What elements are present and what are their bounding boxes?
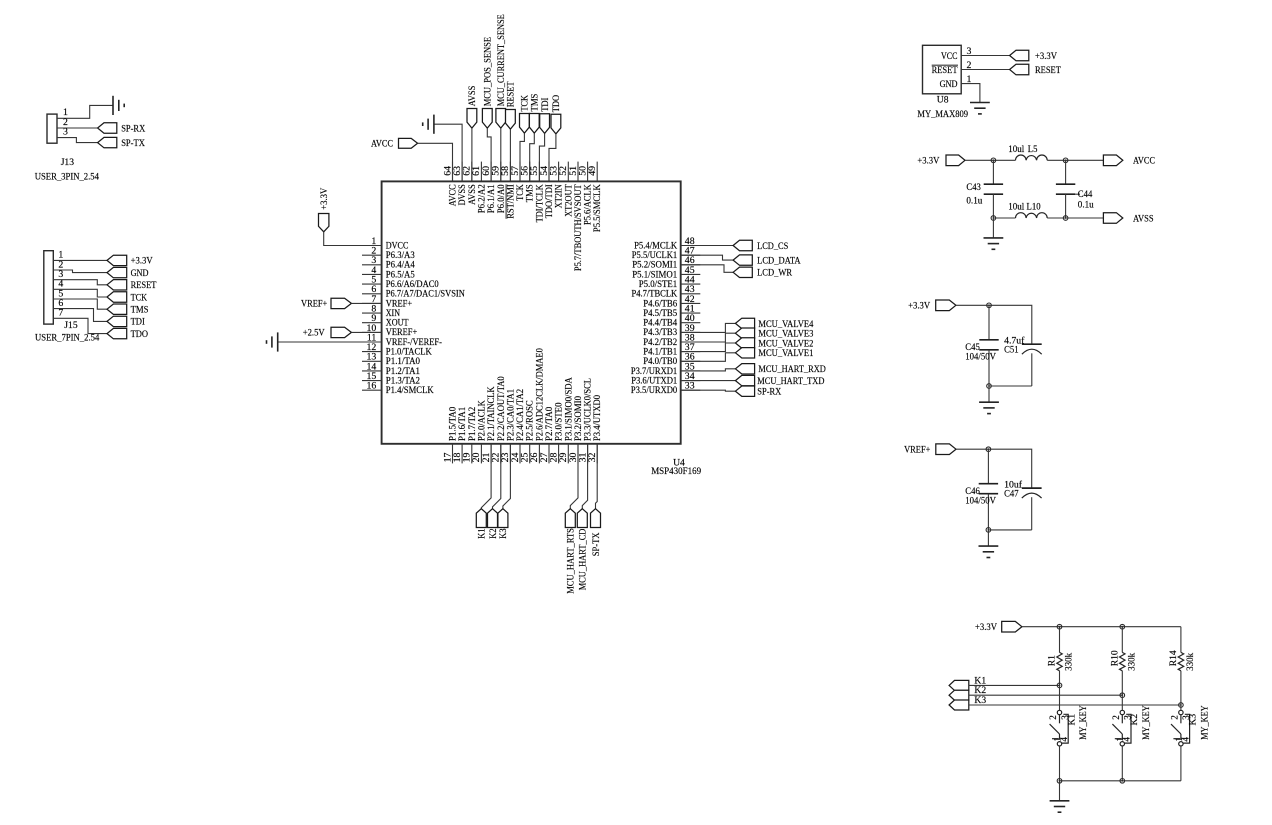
svg-text:R10: R10 [1109, 650, 1120, 666]
resistor R14 330k [1168, 627, 1196, 705]
U4 pin 22 P2.2/CAOUT/TA0 [491, 376, 506, 463]
svg-text:104/50V: 104/50V [965, 352, 996, 363]
power port VREF+ [904, 444, 956, 456]
port SP-TX (U4 pin 32) [591, 444, 602, 556]
svg-text:P1.3/TA2: P1.3/TA2 [386, 376, 421, 386]
J15 pin 1 wire [53, 250, 107, 261]
U8 pin 3 VCC [941, 46, 1010, 61]
wire U4 VREF-/VEREF- to ground [278, 341, 382, 343]
svg-text:K1: K1 [477, 528, 488, 538]
port MCU_HART_CD (U4 pin 31) [577, 444, 588, 591]
svg-text:P4.2/TB2: P4.2/TB2 [643, 337, 677, 347]
J15 reference designator [64, 320, 78, 331]
svg-text:32: 32 [587, 453, 598, 463]
svg-text:MY_MAX809: MY_MAX809 [917, 109, 968, 120]
U4 pin 31 P3.3/UCLK0/SCL [577, 378, 592, 464]
switch K3 MY_KEY [1170, 705, 1211, 781]
U8 part MY_MAX809 [917, 109, 968, 120]
ground (DVSS) [423, 115, 434, 134]
svg-text:P3.4/UTXD0: P3.4/UTXD0 [592, 395, 602, 441]
junction (rail R10) [1120, 624, 1125, 629]
svg-text:MCU_HART_RTS: MCU_HART_RTS [566, 528, 577, 594]
ground (J13 pin1) [113, 96, 124, 115]
svg-text:TMS: TMS [131, 305, 149, 316]
port SP-RX (J13) [98, 123, 146, 135]
IC U4 MSP430F169 body [382, 181, 681, 443]
port SP-TX (J13) [98, 137, 145, 149]
inductor L5 10ul [1008, 144, 1047, 160]
svg-text:P5.2/SOMI1: P5.2/SOMI1 [632, 260, 677, 270]
junction (K1 node) [1057, 683, 1062, 688]
svg-text:+3.3V: +3.3V [131, 256, 153, 267]
svg-text:P4.6/TB6: P4.6/TB6 [643, 298, 677, 308]
U4 pin 47 P5.5/UCLK1 [632, 246, 701, 261]
svg-text:P6.3/A3: P6.3/A3 [386, 250, 415, 260]
U4 pin 37 P4.1/TB1 [643, 342, 700, 357]
J15 pin 7 wire [53, 308, 107, 334]
svg-text:P5.1/SIMO1: P5.1/SIMO1 [632, 269, 677, 279]
wire +3.3V to L5 [965, 159, 1016, 161]
svg-text:P3.3/UCLK0/SCL: P3.3/UCLK0/SCL [583, 378, 593, 441]
svg-text:P3.2/SOMI0: P3.2/SOMI0 [573, 396, 583, 441]
U4 pin 13 P1.1/TA0 [362, 352, 420, 367]
svg-text:P1.4/SMCLK: P1.4/SMCLK [386, 385, 434, 395]
svg-text:P5.6/ACLK: P5.6/ACLK [583, 184, 593, 225]
junction (L10 left) [991, 216, 996, 221]
svg-text:MY_KEY: MY_KEY [1078, 705, 1089, 739]
wire to keys ground [1059, 781, 1061, 801]
junction (bottom rail K2) [1120, 779, 1125, 784]
U4 pin 26 P2.6/ADC12CLK/DMAE0 [529, 348, 544, 464]
U4 pin 25 P2.5/ROSC [520, 400, 535, 463]
J15 pin 2 wire [53, 259, 107, 272]
J15 pin 6 wire [53, 298, 107, 322]
wire +3.3V key rail [1022, 626, 1181, 628]
port MCU_HART_RTS (U4 pin 30) [565, 444, 578, 594]
switch K1 MY_KEY [1048, 685, 1089, 780]
ground (C46) [979, 546, 999, 557]
svg-text:330k: 330k [1064, 653, 1075, 671]
ground (VREF-) [267, 332, 278, 351]
svg-text:TDI: TDI [540, 98, 551, 112]
svg-text:XT2IN: XT2IN [554, 184, 564, 208]
U4 pin 64 AVCC [442, 162, 457, 207]
U4 pin 27 P2.7/TA0 [539, 406, 554, 463]
port +3.3V (U8) [1010, 50, 1057, 62]
svg-text:RESET: RESET [1035, 65, 1061, 76]
wire C51 bottom [989, 385, 1032, 387]
port MCU_CURRENT_SENSE (U4 pin59) [496, 14, 507, 128]
svg-text:GND: GND [940, 79, 958, 89]
svg-text:AVCC: AVCC [1133, 156, 1155, 167]
wire RESET to U4 pin58 [509, 129, 511, 181]
svg-text:U8: U8 [937, 94, 949, 105]
svg-text:K2: K2 [488, 528, 499, 538]
wire K1 to column [969, 684, 1060, 686]
wire TCK to U4 [520, 133, 524, 181]
U4 pin 18 P1.6/TA1 [452, 406, 467, 463]
port TDO (J15) [107, 328, 148, 340]
port AVCC (U4 pin64) [371, 138, 418, 149]
svg-text:P5.5/SMCLK: P5.5/SMCLK [592, 184, 602, 232]
port TDO (U4) [551, 95, 562, 134]
svg-text:P4.4/TB4: P4.4/TB4 [643, 318, 677, 328]
svg-text:LCD_DATA: LCD_DATA [757, 256, 801, 267]
U4 pin 34 P3.6/UTXD1 [631, 371, 700, 386]
port MCU_VALVE1 (U4 pin 36) [681, 348, 814, 362]
svg-text:VREF+: VREF+ [301, 299, 327, 310]
svg-text:C47: C47 [1004, 488, 1019, 499]
svg-text:330k: 330k [1185, 653, 1196, 671]
svg-text:J13: J13 [61, 157, 75, 168]
svg-text:K3: K3 [498, 528, 509, 538]
svg-text:P5.0/STE1: P5.0/STE1 [639, 279, 678, 289]
resistor R10 330k [1109, 627, 1137, 696]
wire MCU_POS_SENSE to U4 pin60 [487, 128, 491, 181]
svg-text:P3.7/URXD1: P3.7/URXD1 [631, 366, 678, 376]
U4 pin 58 RST/NMI [500, 162, 515, 219]
port MCU_POS_SENSE (U4 pin60) [482, 37, 493, 128]
capacitor C45 104/50V [965, 305, 998, 386]
power port +3.3V (keys) [975, 621, 1022, 633]
svg-text:SP-RX: SP-RX [121, 123, 145, 134]
U4 pin 52 XT2OUT [558, 162, 573, 217]
U4 pin 5 P6.6/A6/DAC0 [362, 275, 439, 290]
svg-text:MCU_POS_SENSE: MCU_POS_SENSE [483, 37, 494, 107]
inductor L10 10ul [993, 201, 1065, 218]
svg-text:2: 2 [1111, 715, 1121, 720]
svg-text:MY_KEY: MY_KEY [1200, 705, 1211, 739]
svg-text:C44: C44 [1078, 189, 1093, 200]
svg-text:+3.3V: +3.3V [917, 156, 939, 167]
svg-text:P6.0/A0: P6.0/A0 [496, 184, 506, 213]
port LCD_WR (U4 pin46) [681, 265, 793, 279]
svg-text:P3.5/URXD0: P3.5/URXD0 [631, 385, 678, 395]
svg-text:P1.7/TA2: P1.7/TA2 [467, 406, 477, 441]
U4 pin 33 P3.5/URXD0 [631, 381, 700, 396]
svg-text:USER_7PIN_2.54: USER_7PIN_2.54 [35, 333, 99, 344]
svg-text:16: 16 [367, 381, 377, 392]
capacitor C43 0.1u [966, 160, 1003, 218]
junction (bottom rail K1) [1057, 779, 1062, 784]
svg-text:RESET: RESET [131, 280, 157, 291]
svg-text:MCU_HART_CD: MCU_HART_CD [578, 529, 589, 591]
U4 pin 12 P1.0/TACLK [362, 342, 432, 357]
svg-text:VREF+: VREF+ [904, 445, 930, 456]
U4 pin 21 P2.1/TAINCLK [481, 386, 496, 463]
port GND (J15) [107, 267, 149, 279]
svg-text:2: 2 [1170, 715, 1180, 720]
U4 pin 9 XOUT [362, 313, 409, 328]
wire K3 to column [969, 704, 1181, 706]
wire U4 DVSS to ground [434, 124, 462, 181]
U4 pin 61 P6.2/A2 [471, 162, 486, 214]
svg-text:AVCC: AVCC [371, 138, 393, 149]
svg-text:AVSS: AVSS [1133, 213, 1154, 224]
U4 pin 39 P4.3/TB3 [643, 323, 700, 337]
port TDI (J15) [107, 316, 145, 328]
U4 pin 28 P3.0/STE0 [548, 402, 563, 463]
svg-text:P1.2/TA1: P1.2/TA1 [386, 366, 421, 376]
port K2 (keys) [949, 685, 986, 700]
svg-text:VEREF+: VEREF+ [386, 327, 417, 337]
port K3 (keys) [949, 695, 986, 710]
U4 pin 46 P5.2/SOMI1 [632, 255, 700, 270]
svg-text:49: 49 [587, 166, 598, 176]
U4 pin 57 TCK [510, 162, 525, 201]
svg-text:RST/NMI: RST/NMI [505, 184, 515, 219]
svg-text:+3.3V: +3.3V [908, 301, 930, 312]
svg-text:P1.0/TACLK: P1.0/TACLK [386, 347, 432, 357]
U4 pin 62 AVSS [462, 162, 477, 205]
port MCU_HART_RXD (U4 pin35) [681, 364, 826, 376]
capacitor C51 4.7uf (polarized) [1004, 336, 1042, 386]
J13 part USER_3PIN_2.54 [35, 171, 99, 182]
port RESET (U4 pin58) [506, 81, 517, 129]
svg-text:RESET: RESET [506, 81, 517, 107]
port K1 (keys) [949, 675, 986, 690]
svg-text:P2.4/CA1/TA2: P2.4/CA1/TA2 [515, 389, 525, 441]
svg-text:AVCC: AVCC [448, 184, 458, 206]
wire +2.5V to U4 VEREF+ [351, 331, 381, 333]
svg-text:DVCC: DVCC [386, 240, 409, 250]
switch K2 MY_KEY [1111, 695, 1152, 781]
port MCU_VALVE2 (U4 pin 37) [681, 338, 814, 352]
ground (C45) [979, 402, 999, 413]
port MCU_VALVE3 (U4 pin 38) [681, 328, 814, 342]
svg-text:MCU_HART_TXD: MCU_HART_TXD [757, 376, 824, 387]
U4 pin 53 XT2IN [548, 162, 563, 209]
U4 pin 55 TDI/TCLK [529, 162, 544, 223]
svg-text:2: 2 [1048, 715, 1058, 720]
svg-text:K2: K2 [1129, 714, 1140, 726]
U4 pin 60 P6.1/A1 [481, 162, 496, 214]
wire AVSS port to U4 pin62 [471, 128, 473, 181]
svg-text:P6.4/A4: P6.4/A4 [386, 260, 415, 270]
svg-text:AVSS: AVSS [467, 184, 477, 205]
U4 pin 38 P4.2/TB2 [643, 332, 700, 347]
wire TDI to U4 [539, 133, 544, 181]
svg-text:330k: 330k [1127, 653, 1138, 671]
svg-text:XT2OUT: XT2OUT [563, 184, 573, 217]
port RESET (U8) [1010, 64, 1061, 76]
svg-text:10ul: 10ul [1008, 201, 1024, 212]
power port +3.3V (U4 pin1) [319, 188, 330, 232]
svg-text:P2.0/ACLK: P2.0/ACLK [476, 400, 486, 441]
wire L10 to AVSS port [1066, 217, 1104, 219]
wire C47 bottom [988, 529, 1031, 531]
svg-text:TDI: TDI [131, 317, 145, 328]
svg-text:P4.3/TB3: P4.3/TB3 [643, 327, 677, 337]
svg-text:0.1u: 0.1u [1078, 200, 1094, 211]
U4 pin 14 P1.2/TA1 [362, 361, 420, 376]
svg-text:P5.5/UCLK1: P5.5/UCLK1 [632, 250, 678, 260]
svg-text:MY_KEY: MY_KEY [1141, 705, 1152, 739]
svg-text:MCU_HART_RXD: MCU_HART_RXD [758, 364, 825, 375]
svg-text:P5.4/MCLK: P5.4/MCLK [634, 240, 677, 250]
svg-text:P3.6/UTXD1: P3.6/UTXD1 [631, 376, 677, 386]
U4 pin 50 P5.6/ACLK [577, 162, 592, 225]
power port +3.3V (filter) [917, 155, 965, 167]
svg-text:TDO/TDI: TDO/TDI [544, 184, 554, 218]
junction (rail R1) [1057, 624, 1062, 629]
svg-text:+2.5V: +2.5V [303, 328, 325, 339]
svg-text:XIN: XIN [386, 308, 401, 318]
capacitor C46 104/50V [965, 449, 998, 530]
port AVSS (filter) [1103, 213, 1153, 225]
U4 pin 48 P5.4/MCLK [634, 236, 700, 251]
U4 pin 17 P1.5/TA0 [442, 406, 457, 463]
svg-text:LCD_WR: LCD_WR [757, 268, 793, 279]
svg-text:P3.1/SIMO0/SDA: P3.1/SIMO0/SDA [563, 377, 573, 441]
wire L5 to AVCC port [1047, 159, 1103, 161]
U4 pin 15 P1.3/TA2 [362, 371, 420, 386]
U4 reference designator [673, 458, 685, 469]
U4 pin 43 P4.7/TBCLK [632, 284, 701, 299]
svg-text:P4.0/TB0: P4.0/TB0 [643, 356, 677, 366]
junction (C44 top) [1063, 158, 1068, 163]
svg-text:P6.7/A7/DAC1/SVSIN: P6.7/A7/DAC1/SVSIN [386, 289, 465, 299]
ground (keys) [1050, 801, 1070, 812]
port RESET (J15) [107, 280, 157, 292]
svg-text:USER_3PIN_2.54: USER_3PIN_2.54 [35, 171, 99, 182]
svg-text:P2.6/ADC12CLK/DMAE0: P2.6/ADC12CLK/DMAE0 [534, 348, 544, 441]
capacitor C44 0.1u [1056, 160, 1094, 218]
svg-text:P2.3/CA0/TA1: P2.3/CA0/TA1 [505, 389, 515, 441]
J13 pin 2 wire [57, 117, 98, 128]
svg-text:10ul: 10ul [1008, 144, 1024, 155]
svg-text:P4.5/TB5: P4.5/TB5 [643, 308, 677, 318]
U4 pin 35 P3.7/URXD1 [631, 361, 700, 376]
U4 pin 36 P4.0/TB0 [643, 352, 700, 367]
capacitor C47 10uf (polarized) [1004, 480, 1042, 530]
svg-text:P1.6/TA1: P1.6/TA1 [457, 406, 467, 441]
svg-text:L10: L10 [1027, 201, 1041, 212]
port TMS (J15) [107, 304, 149, 316]
U4 pin 10 VEREF+ [362, 323, 417, 337]
wire +3.3V to U4 DVCC [324, 232, 382, 246]
svg-text:VREF-/VEREF-: VREF-/VEREF- [386, 337, 442, 347]
svg-text:K1: K1 [1066, 714, 1077, 726]
U4 pin 24 P2.4/CA1/TA2 [510, 389, 525, 464]
svg-text:P2.1/TAINCLK: P2.1/TAINCLK [486, 386, 496, 441]
U4 pin 41 P4.5/TB5 [643, 303, 700, 318]
wire C46 to ground [987, 530, 989, 546]
J15 part USER_7PIN_2.54 [35, 333, 99, 344]
svg-text:TDI/TCLK: TDI/TCLK [534, 184, 544, 222]
U4 pin 23 P2.3/CA0/TA1 [500, 389, 515, 464]
svg-text:MCU_VALVE1: MCU_VALVE1 [758, 348, 813, 359]
svg-text:LCD_CS: LCD_CS [757, 241, 788, 252]
svg-text:+3.3V: +3.3V [319, 188, 330, 210]
port K3 (U4 pin 23) [498, 444, 511, 539]
wire AVCC to U4 pin64 [418, 143, 453, 181]
svg-text:P2.7/TA0: P2.7/TA0 [544, 406, 554, 441]
svg-text:3: 3 [63, 127, 68, 138]
J15 pin 5 wire [53, 288, 107, 309]
port VREF+ (U4 pin7) [301, 298, 351, 309]
U4 pin 4 P6.5/A5 [362, 265, 415, 280]
svg-text:P6.2/A2: P6.2/A2 [476, 184, 486, 213]
junction (K3 node) [1179, 703, 1184, 708]
port +3.3V (J15) [107, 255, 153, 267]
svg-text:P4.1/TB1: P4.1/TB1 [643, 347, 677, 357]
U4 pin 11 VREF-/VEREF- [362, 332, 442, 347]
junction (C43 top) [991, 158, 996, 163]
svg-text:XOUT: XOUT [386, 318, 409, 328]
svg-text:P6.6/A6/DAC0: P6.6/A6/DAC0 [386, 279, 439, 289]
ground (U8) [970, 103, 990, 114]
svg-text:0.1u: 0.1u [966, 195, 982, 206]
wire TMS to U4 [530, 133, 535, 181]
port TCK (J15) [107, 292, 147, 304]
port LCD_DATA (U4 pin47) [681, 255, 801, 267]
wire keys bottom rail [1060, 780, 1181, 782]
svg-text:7: 7 [58, 308, 63, 319]
U4 pin 40 P4.4/TB4 [643, 313, 700, 328]
svg-text:SP-TX: SP-TX [591, 532, 602, 556]
U4 pin 44 P5.0/STE1 [639, 275, 701, 290]
connector J15 body [44, 251, 54, 324]
U4 pin 16 P1.4/SMCLK [362, 381, 434, 396]
svg-text:C43: C43 [966, 182, 981, 193]
port +2.5V (U4 pin10) [303, 327, 352, 338]
svg-text:VREF+: VREF+ [386, 298, 412, 308]
power port +3.3V [908, 300, 956, 312]
resistor R1 330k [1047, 627, 1075, 686]
U4 pin 2 P6.3/A3 [362, 246, 415, 261]
svg-text:RESET: RESET [932, 65, 958, 75]
junction (C45 top) [987, 303, 992, 308]
svg-text:TCK: TCK [515, 184, 525, 201]
svg-text:4: 4 [1180, 737, 1190, 742]
port LCD_CS (U4 pin48) [681, 240, 789, 252]
svg-text:P6.1/A1: P6.1/A1 [486, 184, 496, 213]
wire K2 to column [969, 694, 1123, 696]
U4 pin 45 P5.1/SIMO1 [632, 265, 700, 280]
U4 pin 56 TMS [520, 162, 535, 203]
U4 pin 6 P6.7/A7/DAC1/SVSIN [362, 284, 465, 299]
port TDI (U4) [540, 98, 551, 134]
U4 pin 3 P6.4/A4 [362, 255, 415, 270]
svg-text:P1.1/TA0: P1.1/TA0 [386, 356, 421, 366]
svg-text:P3.0/STE0: P3.0/STE0 [554, 402, 564, 441]
junction (C46 top) [986, 447, 991, 452]
svg-text:VCC: VCC [941, 51, 958, 61]
U4 pin 30 P3.2/SOMI0 [568, 396, 583, 464]
U8 reference designator [937, 94, 949, 105]
U4 pin 59 P6.0/A0 [491, 162, 506, 214]
wire C45 to ground [988, 386, 990, 402]
port TCK (U4) [520, 95, 531, 133]
port K2 (U4 pin 22) [488, 444, 501, 539]
ground (filter) [984, 238, 1004, 249]
port MCU_HART_TXD (U4 pin34) [681, 375, 825, 387]
svg-text:R1: R1 [1047, 655, 1058, 666]
junction (K2 node) [1120, 693, 1125, 698]
U4 pin 8 XIN [362, 303, 400, 318]
svg-text:4: 4 [1059, 737, 1069, 742]
connector J13 body [47, 114, 57, 143]
wire +3.3V rail [956, 305, 1032, 344]
port TMS (U4) [529, 94, 540, 134]
svg-text:C51: C51 [1004, 344, 1019, 355]
U4 pin 32 P3.4/UTXD0 [587, 395, 602, 464]
svg-text:K3: K3 [1188, 714, 1199, 726]
U4 pin 63 DVSS [452, 162, 467, 206]
port MCU_VALVE4 (U4 pin 39) [681, 318, 814, 332]
svg-text:104/50V: 104/50V [965, 495, 996, 506]
